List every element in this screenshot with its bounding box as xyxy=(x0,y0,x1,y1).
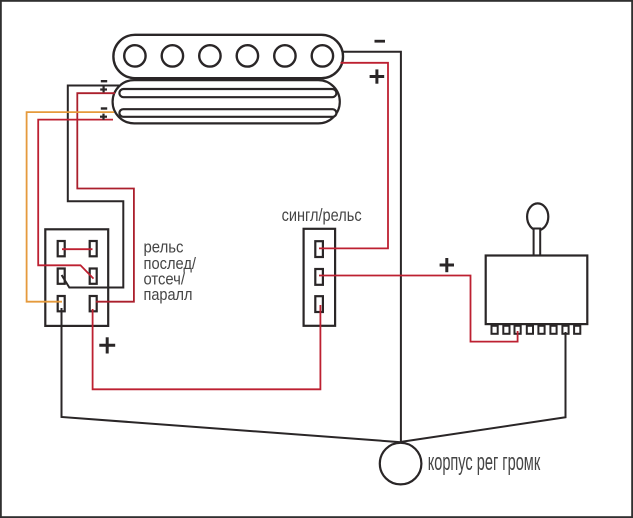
wire red: SW1 top pins jumper xyxy=(62,248,93,250)
label рельс послед/ отсеч/ паралл xyxy=(144,239,197,304)
plus label (rail coil second red lead) xyxy=(100,114,107,120)
minus label (rail coil orange lead) xyxy=(101,107,107,109)
minus label (rail coil black lead) xyxy=(101,80,107,82)
plus label (below SW1) xyxy=(99,337,115,353)
SW3 lever stem xyxy=(534,229,541,257)
rail coil (bottom of pickup, twin blades) xyxy=(113,80,340,123)
wire orange: rail coil second minus to SW1 bottom-left pin xyxy=(27,112,114,302)
wire red: bridge coil plus down to SW2 pin 1 xyxy=(319,63,388,249)
SW2 pins (3 lugs) xyxy=(315,241,323,312)
wire black: bridge coil minus to long down run xyxy=(342,52,401,443)
wire red: SW1 bottom-right pin to SW2 pin 3 xyxy=(93,305,321,389)
minus label (bridge coil black lead) xyxy=(375,40,386,43)
svg-text:корпус рег громк: корпус рег громк xyxy=(428,449,541,476)
humbucker bridge coil (top, 6 pole pieces) xyxy=(113,35,343,78)
lever selector switch SW3 knob xyxy=(527,203,548,230)
plus label (SW2 pin 2 wire) xyxy=(440,258,454,272)
wire red: SW2 pin 2 to SW3 lug 3 xyxy=(319,276,518,342)
slide switch SW2 body (сингл/рельс) xyxy=(304,229,336,326)
plus label (rail coil red lead) xyxy=(100,86,107,92)
wire red (dark): rail coil plus, loop to SW1 bottom-right pin xyxy=(77,93,134,302)
wire black: SW3 lug 7 to pot casing xyxy=(401,332,566,442)
volume pot casing (корпус рег громк) xyxy=(380,443,422,485)
wire black: rail coil minus, left loop to SW1 middle-left pin xyxy=(62,86,124,288)
SW3 solder lugs (8) xyxy=(492,326,581,334)
plus label (bridge coil red lead) xyxy=(370,69,385,83)
DPDT switch SW1 body (рельс/послед/отсеч/паралл) xyxy=(45,229,108,326)
svg-text:сингл/рельс: сингл/рельс xyxy=(282,205,362,225)
svg-text:паралл: паралл xyxy=(144,286,193,304)
wire black: SW1 bottom-left pin to pot casing xyxy=(62,308,402,442)
SW3 body xyxy=(486,256,588,325)
SW1 pins (6 lugs, 2 columns x 3 rows) xyxy=(58,241,97,311)
wire red: rail coil second plus to SW1 middle-right pin xyxy=(38,120,113,279)
